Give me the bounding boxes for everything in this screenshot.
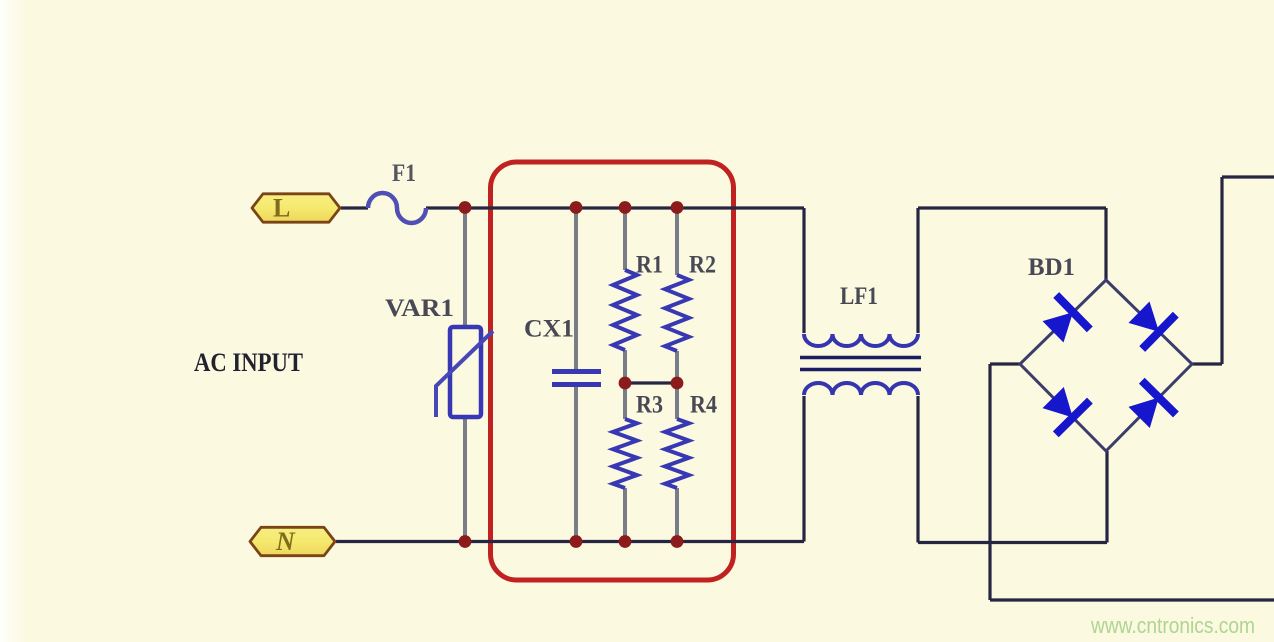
svg-text:R2: R2 [689,252,716,279]
svg-text:F1: F1 [392,160,416,187]
svg-text:BD1: BD1 [1028,254,1075,281]
svg-text:L: L [273,194,290,223]
svg-text:AC INPUT: AC INPUT [194,348,303,377]
svg-text:www.cntronics.com: www.cntronics.com [1090,613,1255,638]
svg-text:R4: R4 [690,392,717,419]
svg-text:R1: R1 [636,252,663,279]
svg-text:LF1: LF1 [840,283,878,310]
svg-text:VAR1: VAR1 [385,295,454,322]
svg-text:N: N [275,527,296,556]
svg-text:R3: R3 [636,392,663,419]
svg-text:CX1: CX1 [524,316,574,343]
